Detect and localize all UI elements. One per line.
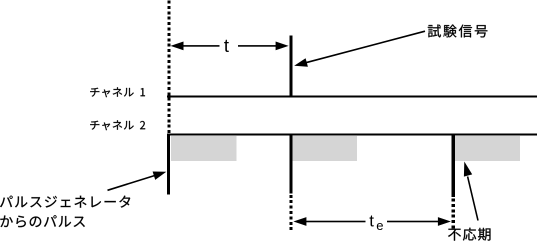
- dimension arrow te: right head: [438, 217, 451, 226]
- callout arrow to test signal: shaft: [304, 31, 426, 63]
- pulse 2 on channel 2: [289, 134, 292, 194]
- svg-text:t: t: [369, 212, 374, 231]
- dimension arrow t: right head: [276, 42, 289, 51]
- wire: channel 1 trace: [167, 95, 537, 97]
- callout arrow to refractory band: shaft: [468, 177, 478, 221]
- svg-text:t: t: [224, 35, 229, 56]
- wire: channel 2 trace: [167, 134, 537, 136]
- dimension arrow te: left shaft: [304, 221, 366, 223]
- dimension arrow t: right shaft: [238, 45, 278, 47]
- label からのパルス (pulse from ~) line 2: [0, 215, 84, 227]
- pulse 1 on channel 2 (from pulse generator): [167, 134, 170, 195]
- label 試験信号 (test signal): [428, 25, 488, 38]
- refractory band 2 (gray): [293, 136, 358, 161]
- refractory band 3 (gray): [455, 136, 520, 161]
- node: timing reference dotted line: [167, 1, 170, 134]
- dimension arrow t: left shaft: [181, 45, 220, 47]
- dimension arrow te: right shaft: [387, 221, 442, 223]
- refractory band 1 (gray): [171, 136, 237, 161]
- callout arrow to refractory band: head: [464, 162, 472, 177]
- dimension arrow te: left head: [293, 217, 306, 226]
- svg-text:e: e: [376, 218, 383, 233]
- callout arrow from pulse-generator label: shaft: [108, 175, 159, 191]
- label 不応期 (refractory period): [448, 228, 490, 241]
- label チャネル 1 (channel 1): [90, 87, 145, 97]
- label パルスジェネレータ (pulse generator) line 1: [0, 196, 130, 208]
- dimension arrow t: left head: [171, 42, 184, 51]
- pulse 3 on channel 2: [452, 134, 455, 197]
- callout arrow to test signal: head: [294, 58, 308, 66]
- pulse: test signal on channel 1: [289, 35, 292, 97]
- dotted extension below pulse 2: [289, 195, 292, 230]
- dotted extension below pulse 3: [452, 199, 455, 231]
- label チャネル 2 (channel 2): [90, 120, 145, 130]
- callout arrow from pulse-generator label: head: [153, 172, 167, 180]
